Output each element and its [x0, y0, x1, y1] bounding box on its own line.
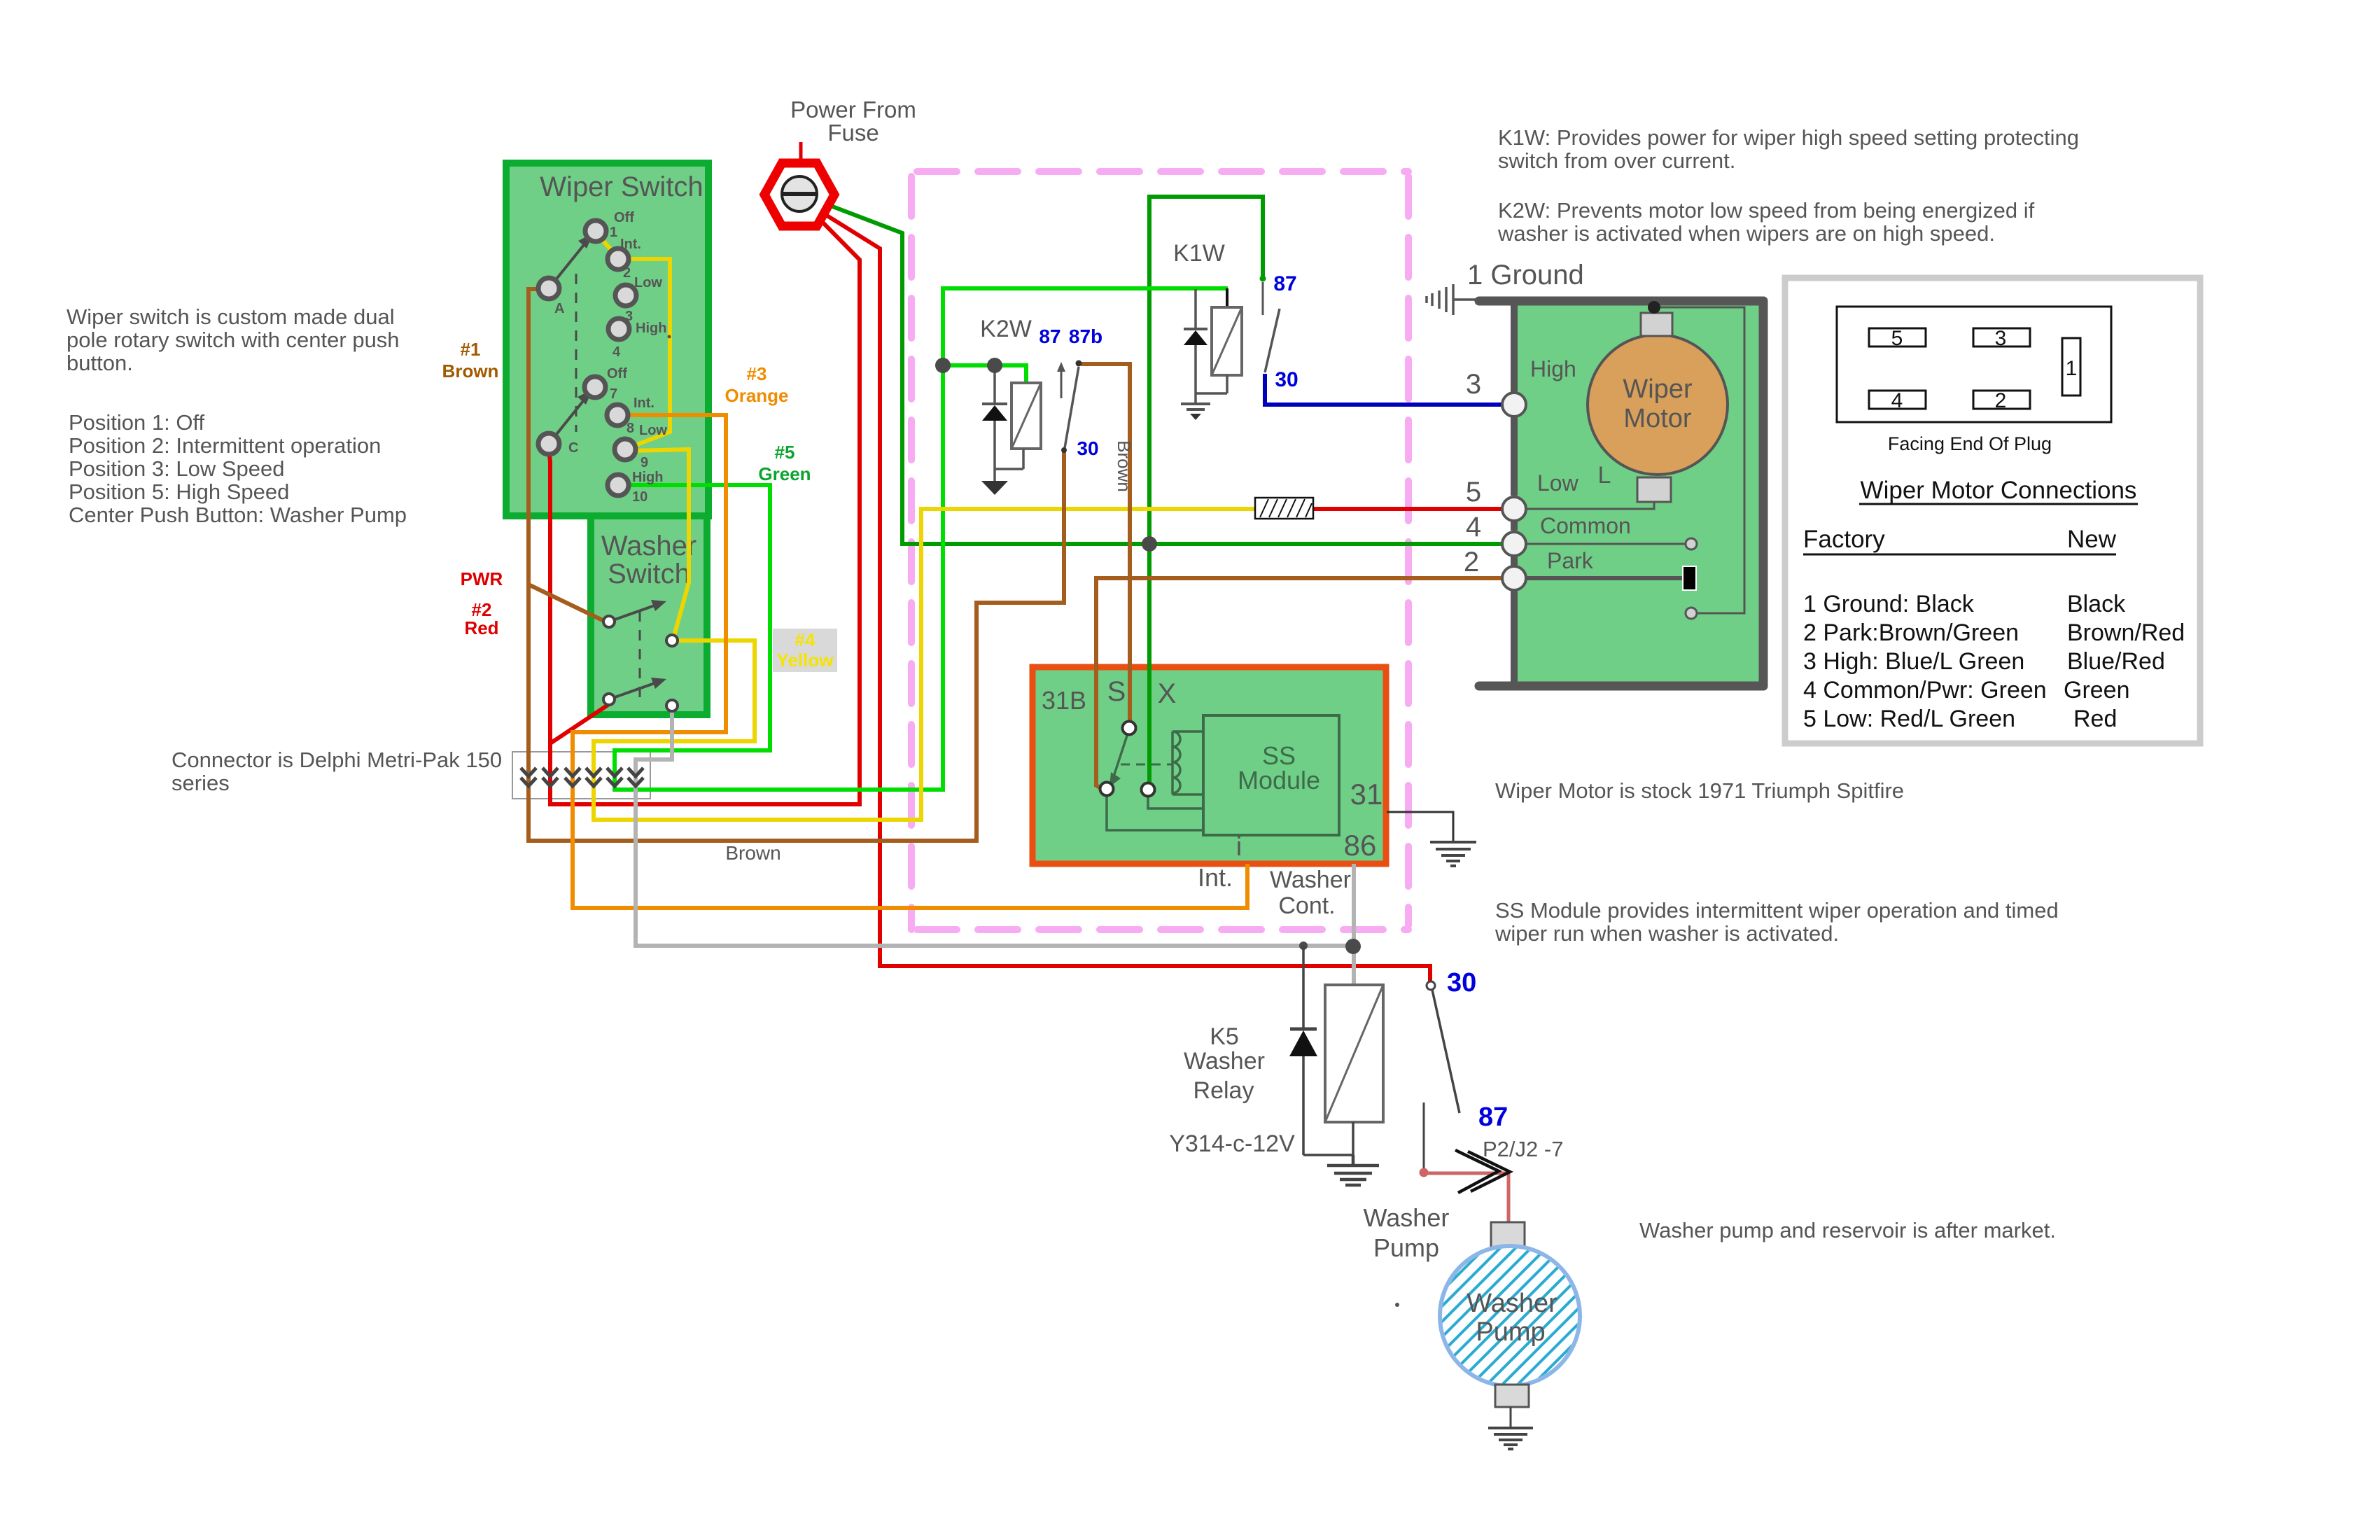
K5 relay coil [1325, 985, 1383, 1155]
K5 diode D5 [1289, 946, 1353, 1155]
svg-text:87: 87 [1039, 325, 1060, 347]
svg-text:Red: Red [464, 617, 498, 638]
plug numbers [1891, 327, 2078, 412]
wire red from resistor to motor low 5 [1313, 507, 1512, 511]
svg-text:1 Ground: 1 Ground [1467, 260, 1584, 290]
resistor R1 hatched [1255, 498, 1313, 519]
svg-text:Blue/Red: Blue/Red [2067, 648, 2165, 675]
connector pins double chevrons [521, 768, 643, 786]
svg-text:A: A [554, 301, 564, 316]
svg-text:Brown/Red: Brown/Red [2067, 619, 2185, 646]
svg-text:Washer: Washer [1466, 1289, 1557, 1318]
svg-text:i: i [1236, 832, 1242, 862]
svg-text:K2W: Prevents motor low speed: K2W: Prevents motor low speed from being… [1498, 198, 2035, 223]
svg-text:Pump: Pump [1476, 1317, 1545, 1347]
wire gray from washer switch to SS 86 and K5 coil [636, 710, 1354, 985]
svg-text:Black: Black [2067, 591, 2126, 617]
svg-text:Motor: Motor [1623, 404, 1691, 433]
svg-text:4: 4 [1891, 389, 1903, 412]
svg-text:#3: #3 [747, 363, 767, 384]
svg-text:Brown: Brown [442, 360, 499, 381]
plug pin 5 [1869, 328, 1926, 346]
K5 switch 30 contact and arm [1427, 981, 1459, 1113]
K2W junction dots [935, 358, 951, 373]
wire red from fuse to K5 switch 30 [802, 200, 1430, 981]
svg-text:7: 7 [610, 386, 617, 402]
svg-text:Center Push Button: Washer Pum: Center Push Button: Washer Pump [69, 503, 407, 527]
svg-text:Washer: Washer [1184, 1048, 1265, 1074]
svg-text:31B: 31B [1042, 686, 1086, 715]
wiper switch box SW1 [506, 163, 708, 516]
wire bright green #5 from wiper 10 to K1W coil [615, 288, 1228, 790]
svg-text:3: 3 [1995, 327, 2007, 350]
svg-text:Washer: Washer [601, 531, 696, 561]
svg-text:10: 10 [632, 489, 647, 505]
svg-text:series: series [171, 771, 230, 795]
svg-text:Wiper Motor Connections: Wiper Motor Connections [1861, 477, 2137, 504]
SS module switch arm [1109, 734, 1172, 787]
svg-text:C: C [568, 440, 578, 456]
wiper switch contacts 1-4, A [538, 220, 636, 339]
wiper motor armature circle [1588, 335, 1728, 475]
ground for SS 31 [1430, 842, 1476, 866]
svg-text:87b: 87b [1069, 325, 1102, 347]
svg-text:P2/J2 -7: P2/J2 -7 [1483, 1137, 1563, 1161]
pink dashed harness boundary box [911, 171, 1408, 930]
svg-text:pole rotary switch with center: pole rotary switch with center push [66, 328, 400, 352]
svg-text:Low: Low [1537, 470, 1579, 496]
motor internal wiring [1525, 307, 1744, 613]
wire bright green branch to K2W coil [943, 365, 1026, 383]
motor ground 1 symbol rotated [1427, 284, 1479, 315]
K2W switch 87 lead [1057, 362, 1065, 398]
wire dark green from fuse to motor common 4 [805, 196, 1512, 544]
svg-text:Common: Common [1540, 513, 1631, 538]
plug outline [1837, 307, 2111, 422]
svg-text:Washer pump and reservoir is a: Washer pump and reservoir is after marke… [1639, 1218, 2056, 1242]
svg-text:K1W: Provides power for wiper: K1W: Provides power for wiper high speed… [1498, 125, 2079, 150]
svg-text:87: 87 [1273, 272, 1296, 295]
svg-text:30: 30 [1275, 368, 1298, 391]
wire brown from K2W 87b to SS module S [1081, 364, 1130, 724]
wire blue from K1W 30 to motor high 3 [1265, 374, 1512, 405]
wiper switch rotary pole A arm [549, 233, 594, 288]
svg-text:1 Ground: Black: 1 Ground: Black [1803, 591, 1975, 617]
SS module pin 31 lead to ground [1387, 812, 1453, 841]
svg-text:Washer: Washer [1270, 867, 1351, 893]
svg-text:#4: #4 [795, 629, 815, 650]
wire orange #3 from wiper 8 to SS module Int [573, 415, 1247, 908]
svg-text:2: 2 [1464, 547, 1479, 577]
svg-text:PWR: PWR [461, 568, 503, 589]
svg-text:4 Common/Pwr: Green: 4 Common/Pwr: Green [1803, 677, 2047, 703]
svg-text:wiper run when washer is activ: wiper run when washer is activated. [1494, 921, 1839, 946]
wire dark green branch to K1W 87 [1149, 197, 1263, 544]
wire salmon from K5 87 connector to washer pump [1424, 1173, 1508, 1224]
svg-text:Int.: Int. [1198, 863, 1233, 892]
svg-text:8: 8 [626, 421, 634, 436]
K5 ground [1327, 1155, 1379, 1185]
SS module contacts S X arm [1100, 722, 1155, 797]
svg-text:New: New [2067, 526, 2117, 553]
motor small terminals [1686, 538, 1697, 549]
svg-text:Module: Module [1238, 766, 1320, 794]
svg-text:X: X [1158, 678, 1177, 709]
dark green junction dot at motor common branch [1142, 536, 1157, 552]
svg-text:Connector is Delphi Metri-Pak: Connector is Delphi Metri-Pak 150 [171, 748, 502, 772]
svg-text:2: 2 [623, 265, 631, 281]
rotary contact labels upper bank [554, 210, 666, 360]
motor terminal circles on left edge [1502, 393, 1526, 590]
svg-text:31: 31 [1350, 778, 1383, 811]
svg-text:Red: Red [2073, 706, 2117, 732]
svg-text:washer is activated when wiper: washer is activated when wipers are on h… [1497, 221, 1995, 246]
svg-text:Int.: Int. [620, 237, 641, 252]
svg-text:2: 2 [1995, 389, 2007, 412]
wiper motor connections table box [1785, 278, 2200, 743]
svg-text:K1W: K1W [1173, 240, 1225, 267]
wiper motor box M1 frame [1479, 301, 1763, 686]
svg-text:30: 30 [1077, 437, 1098, 459]
svg-text:1: 1 [610, 225, 617, 240]
plug pin 1 [2062, 338, 2080, 395]
svg-text:Position 5: High Speed: Position 5: High Speed [69, 479, 289, 504]
washer switch arm lower [609, 678, 666, 699]
svg-text:L: L [1598, 462, 1611, 489]
svg-text:Low: Low [634, 275, 662, 290]
label #4 Yellow swatch [773, 629, 837, 672]
washer switch box SW2 [591, 516, 707, 715]
plug pin 2 [1973, 391, 2030, 409]
motor brush blocks [1641, 313, 1672, 336]
SS module arm lead [1107, 795, 1203, 830]
svg-text:3 High: Blue/L Green: 3 High: Blue/L Green [1803, 648, 2024, 675]
plug pin 3 [1973, 328, 2030, 346]
svg-text:Position 2: Intermittent opera: Position 2: Intermittent operation [69, 433, 381, 458]
plug pin 4 [1869, 391, 1926, 409]
fuse F1 power from fuse [764, 142, 834, 226]
svg-text:Low: Low [639, 423, 667, 438]
svg-text:1: 1 [2066, 357, 2078, 380]
svg-text:9: 9 [640, 455, 648, 470]
svg-text:High: High [632, 470, 663, 485]
svg-text:Green: Green [758, 463, 811, 484]
wire yellow #4 rotary 1-2-9 and washer to resistor [594, 234, 1255, 820]
K1W ground [1181, 393, 1210, 420]
stray dot near pump [1395, 1303, 1399, 1307]
wire brown #1 from wiper A through connector to K2W 30 [528, 289, 1064, 841]
svg-text:#1: #1 [461, 339, 481, 360]
motor park switch black contact [1683, 566, 1696, 590]
svg-text:5: 5 [1466, 477, 1481, 507]
washer switch dashed link [639, 611, 641, 703]
stray dot on yellow [668, 335, 671, 339]
svg-text:Cont.: Cont. [1278, 892, 1335, 919]
svg-text:86: 86 [1344, 829, 1377, 862]
svg-text:K2W: K2W [980, 316, 1032, 342]
svg-text:Power From: Power From [790, 97, 916, 122]
svg-text:#5: #5 [775, 442, 795, 463]
svg-text:4: 4 [612, 344, 621, 360]
svg-text:Washer: Washer [1364, 1203, 1450, 1232]
svg-text:Yellow: Yellow [777, 650, 834, 671]
svg-text:switch from over current.: switch from over current. [1498, 148, 1735, 173]
svg-text:Relay: Relay [1193, 1077, 1254, 1104]
svg-text:Wiper Switch: Wiper Switch [540, 171, 703, 202]
K1W switch 87 lead and arm [1260, 276, 1280, 373]
svg-text:2 Park:Brown/Green: 2 Park:Brown/Green [1803, 619, 2019, 646]
wiper switch contacts 7-10, C [538, 377, 636, 496]
washer switch contacts [603, 616, 678, 711]
svg-text:87: 87 [1478, 1102, 1508, 1132]
svg-text:Fuse: Fuse [827, 120, 878, 146]
K2W switch 87b arm to 30 [1061, 360, 1082, 454]
svg-text:Brown: Brown [1114, 440, 1135, 492]
svg-text:Factory: Factory [1803, 526, 1885, 553]
small junction dot diode K5 [1299, 941, 1308, 950]
svg-text:Position 1: Off: Position 1: Off [69, 410, 205, 435]
wire red PWR from fuse to wiper C and washer switch [549, 199, 860, 804]
svg-text:30: 30 [1447, 968, 1476, 997]
svg-text:5: 5 [1891, 327, 1903, 350]
svg-text:Park: Park [1547, 548, 1594, 573]
svg-text:Wiper switch is custom made du: Wiper switch is custom made dual [66, 304, 395, 329]
K2W relay coil [1011, 383, 1041, 469]
K1W relay coil [1212, 288, 1242, 393]
svg-text:Wiper Motor is stock 1971 Triu: Wiper Motor is stock 1971 Triumph Spitfi… [1495, 778, 1904, 803]
washer switch arm upper [609, 600, 666, 622]
wire brown park from motor 2 to SS module arm [1096, 578, 1512, 789]
K1W diode D1 [1184, 289, 1227, 393]
svg-text:Int.: Int. [633, 395, 654, 411]
svg-text:Off: Off [607, 366, 627, 381]
table rows [1803, 591, 2185, 732]
svg-text:High: High [636, 321, 666, 336]
wiper switch rotary pole C arm [549, 389, 593, 444]
K2W ground arrow [981, 469, 1008, 495]
svg-text:3: 3 [1466, 369, 1481, 400]
SS module X lead [1148, 795, 1203, 808]
svg-text:Wiper: Wiper [1623, 374, 1693, 404]
svg-text:Y314-c-12V: Y314-c-12V [1169, 1130, 1295, 1157]
SS module inner unit [1203, 715, 1339, 835]
svg-text:SS Module provides intermitten: SS Module provides intermittent wiper op… [1495, 898, 2059, 923]
svg-text:Off: Off [614, 210, 634, 225]
svg-text:Position 3: Low Speed: Position 3: Low Speed [69, 456, 285, 481]
svg-text:3: 3 [625, 309, 633, 324]
connector box (Delphi Metri-Pak) [512, 752, 650, 799]
K5 87 lead to P2/J2 [1423, 1102, 1425, 1169]
svg-text:Switch: Switch [608, 559, 690, 589]
svg-text:Green: Green [2064, 677, 2130, 703]
gray junction dot big at 86/K5 [1345, 939, 1361, 954]
washer pump ground [1488, 1428, 1533, 1449]
svg-text:High: High [1530, 356, 1576, 381]
washer pump P1 [1414, 1176, 1610, 1427]
P2/J2 connector chevrons [1455, 1150, 1510, 1193]
svg-text:Brown: Brown [725, 842, 780, 864]
svg-text:5 Low: Red/L Green: 5 Low: Red/L Green [1803, 706, 2015, 732]
svg-text:4: 4 [1466, 512, 1481, 542]
svg-text:S: S [1107, 676, 1126, 707]
SS module coil [1172, 731, 1203, 794]
wiper switch dashed link upper [575, 274, 577, 432]
K2W diode D2 [982, 365, 1023, 469]
svg-text:Pump: Pump [1373, 1233, 1439, 1262]
svg-text:K5: K5 [1210, 1023, 1239, 1050]
wire dark green branch to SS module X [1147, 544, 1151, 785]
SS module box U1 [1032, 667, 1386, 864]
svg-text:button.: button. [66, 351, 133, 375]
rotary contact labels lower bank [568, 366, 667, 505]
svg-text:Facing End Of Plug: Facing End Of Plug [1888, 433, 2052, 454]
svg-text:Orange: Orange [724, 385, 788, 406]
